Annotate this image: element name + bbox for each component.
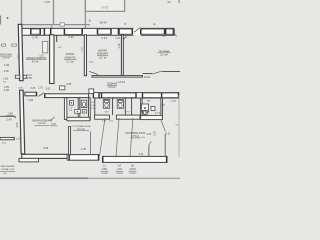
svg-text:1.83: 1.83 bbox=[3, 78, 8, 81]
svg-text:СХЕМА 1:100: СХЕМА 1:100 bbox=[1, 168, 15, 171]
svg-text:50Л: 50Л bbox=[105, 111, 109, 113]
svg-text:1.П2: 1.П2 bbox=[109, 120, 113, 122]
svg-text:2.05: 2.05 bbox=[31, 87, 36, 90]
svg-text:2.35: 2.35 bbox=[155, 131, 157, 136]
svg-text:Гостиная: Гостиная bbox=[159, 50, 170, 53]
svg-text:3.46: 3.46 bbox=[4, 63, 10, 67]
svg-text:13.0 м²: 13.0 м² bbox=[2, 57, 10, 60]
svg-text:1.70: 1.70 bbox=[38, 87, 43, 90]
svg-text:12.7 м²: 12.7 м² bbox=[99, 56, 107, 59]
svg-text:2.49: 2.49 bbox=[6, 118, 12, 122]
svg-text:4.50х: 4.50х bbox=[102, 169, 108, 171]
svg-text:2.4 м²: 2.4 м² bbox=[129, 172, 135, 175]
svg-text:1чТ: 1чТ bbox=[118, 165, 122, 167]
svg-text:1.4П: 1.4П bbox=[44, 0, 50, 4]
svg-text:2.05: 2.05 bbox=[45, 88, 50, 91]
svg-text:11.1 м²: 11.1 м² bbox=[66, 61, 74, 64]
svg-text:0.35: 0.35 bbox=[147, 134, 152, 136]
svg-text:ф: ф bbox=[153, 23, 155, 26]
svg-text:9.5 м²: 9.5 м² bbox=[32, 60, 39, 63]
svg-text:1.34: 1.34 bbox=[115, 37, 120, 40]
svg-text:Ш: Ш bbox=[89, 20, 91, 23]
svg-text:14.81: 14.81 bbox=[144, 76, 151, 79]
svg-text:КОМНАТА: КОМНАТА bbox=[97, 52, 109, 55]
svg-text:3ш: 3ш bbox=[167, 1, 170, 4]
svg-text:4.5СЛ: 4.5СЛ bbox=[129, 169, 136, 171]
svg-text:4.50: 4.50 bbox=[16, 122, 19, 127]
svg-text:ЖИЛАЯ: ЖИЛАЯ bbox=[66, 53, 75, 56]
svg-text:4.65: 4.65 bbox=[43, 146, 49, 150]
svg-text:4.36: 4.36 bbox=[28, 98, 34, 102]
svg-text:4.0Л: 4.0Л bbox=[117, 169, 122, 171]
svg-text:0.85: 0.85 bbox=[66, 83, 71, 86]
svg-text:4.11: 4.11 bbox=[139, 152, 144, 156]
svg-text:5-02: 5-02 bbox=[102, 6, 109, 10]
svg-text:ЗАПОЛНЕНИЕ: ЗАПОЛНЕНИЕ bbox=[0, 165, 15, 168]
svg-text:3.0: 3.0 bbox=[162, 34, 166, 38]
svg-text:1.48: 1.48 bbox=[3, 69, 9, 73]
svg-text:СТОЛОВАЯ ЗОНА: СТОЛОВАЯ ЗОНА bbox=[125, 132, 146, 135]
svg-text:КОМНАТА: КОМНАТА bbox=[65, 56, 76, 59]
svg-text:1.90: 1.90 bbox=[68, 35, 74, 39]
svg-text:1.9 м²: 1.9 м² bbox=[101, 172, 107, 175]
svg-text:12.31: 12.31 bbox=[165, 133, 172, 136]
svg-text:14.81: 14.81 bbox=[118, 80, 125, 84]
svg-text:ф: ф bbox=[124, 23, 126, 26]
svg-text:14.2 м²: 14.2 м² bbox=[77, 128, 85, 131]
svg-text:13.6 м²: 13.6 м² bbox=[108, 86, 116, 89]
svg-text:2.78: 2.78 bbox=[118, 43, 121, 48]
svg-text:1.3П: 1.3П bbox=[81, 148, 86, 151]
svg-text:17.5 м²: 17.5 м² bbox=[131, 135, 139, 138]
svg-text:14.4 м²: 14.4 м² bbox=[38, 122, 46, 125]
svg-text:1.71: 1.71 bbox=[155, 112, 160, 115]
svg-text:2.34: 2.34 bbox=[101, 36, 107, 40]
svg-text:31.1 м²: 31.1 м² bbox=[160, 54, 168, 57]
svg-text:1.78: 1.78 bbox=[32, 35, 38, 39]
svg-text:28.46: 28.46 bbox=[100, 21, 107, 25]
svg-text:1.38: 1.38 bbox=[7, 112, 13, 116]
svg-text:1.9 м²: 1.9 м² bbox=[116, 172, 122, 175]
svg-text:17.5: 17.5 bbox=[171, 100, 176, 103]
svg-text:2.02: 2.02 bbox=[39, 56, 44, 58]
svg-text:2.4П: 2.4П bbox=[4, 89, 9, 92]
svg-text:2.5П: 2.5П bbox=[27, 77, 32, 80]
